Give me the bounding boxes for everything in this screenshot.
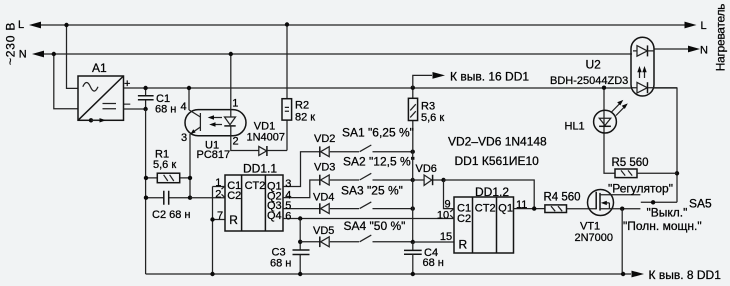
svg-text:68 н: 68 н — [270, 258, 291, 270]
svg-text:1: 1 — [215, 177, 221, 189]
svg-text:SA3 "25 %": SA3 "25 %" — [341, 184, 403, 198]
svg-text:VD1: VD1 — [254, 121, 275, 133]
svg-text:N: N — [700, 45, 708, 57]
svg-text:3: 3 — [285, 178, 291, 190]
svg-text:C2 68 н: C2 68 н — [152, 209, 190, 221]
svg-text:N: N — [19, 48, 27, 60]
svg-text:Q4: Q4 — [267, 210, 282, 222]
svg-text:VD3: VD3 — [314, 162, 335, 174]
svg-text:DD1 К561ИЕ10: DD1 К561ИЕ10 — [455, 154, 540, 168]
svg-text:7: 7 — [217, 210, 223, 222]
svg-text:+: + — [124, 78, 130, 90]
svg-text:6: 6 — [285, 210, 291, 222]
svg-text:1N4007: 1N4007 — [247, 132, 286, 144]
svg-text:82 к: 82 к — [295, 112, 315, 124]
svg-text:68 н: 68 н — [155, 104, 176, 116]
svg-text:R5 560: R5 560 — [612, 157, 649, 169]
svg-text:–: – — [124, 98, 131, 110]
svg-text:3: 3 — [181, 132, 187, 144]
svg-text:9: 9 — [445, 198, 451, 210]
svg-text:SA1 "6,25 %": SA1 "6,25 %" — [342, 126, 414, 140]
svg-text:11: 11 — [516, 199, 527, 211]
svg-text:2: 2 — [233, 136, 239, 148]
svg-text:VD4: VD4 — [313, 192, 334, 204]
svg-text:5,6 к: 5,6 к — [153, 159, 176, 171]
svg-text:К выв. 16 DD1: К выв. 16 DD1 — [450, 69, 529, 83]
svg-text:R: R — [229, 213, 238, 227]
svg-text:PC817: PC817 — [197, 149, 231, 161]
svg-text:DD1.2: DD1.2 — [475, 185, 509, 199]
svg-text:4: 4 — [181, 101, 187, 113]
svg-text:CT2: CT2 — [245, 180, 266, 192]
svg-text:К выв. 8 DD1: К выв. 8 DD1 — [649, 268, 722, 282]
svg-text:U2: U2 — [586, 58, 602, 72]
svg-text:SA2 "12,5 %": SA2 "12,5 %" — [343, 155, 415, 169]
svg-text:Нагреватель: Нагреватель — [714, 4, 728, 71]
svg-text:SA5: SA5 — [689, 197, 712, 211]
svg-text:"Полн. мощн.": "Полн. мощн." — [623, 219, 702, 233]
svg-text:2N7000: 2N7000 — [575, 232, 614, 244]
svg-text:CT2: CT2 — [475, 203, 496, 215]
svg-text:R4 560: R4 560 — [544, 192, 581, 204]
svg-text:15: 15 — [440, 231, 452, 243]
svg-text:1: 1 — [232, 97, 238, 109]
svg-text:SA4 "50 %": SA4 "50 %" — [344, 219, 406, 233]
svg-text:HL1: HL1 — [565, 121, 585, 133]
svg-text:L: L — [701, 20, 707, 32]
svg-text:68 н: 68 н — [423, 257, 444, 269]
svg-text:2: 2 — [215, 188, 221, 200]
svg-text:VD6: VD6 — [416, 163, 437, 175]
svg-text:VD2: VD2 — [314, 133, 335, 145]
svg-text:VD2–VD6 1N4148: VD2–VD6 1N4148 — [448, 134, 547, 148]
svg-text:L: L — [18, 19, 24, 31]
svg-text:A1: A1 — [92, 61, 107, 75]
svg-text:5,6 к: 5,6 к — [421, 112, 444, 124]
svg-text:DD1.1: DD1.1 — [243, 162, 277, 176]
svg-text:R2: R2 — [295, 100, 309, 112]
svg-text:VT1: VT1 — [580, 221, 600, 233]
svg-text:R3: R3 — [421, 101, 435, 113]
svg-text:10: 10 — [437, 210, 449, 222]
svg-text:R: R — [459, 238, 468, 252]
svg-text:~230 В: ~230 В — [4, 22, 18, 65]
svg-text:C2: C2 — [457, 213, 471, 225]
svg-text:BDH-25044ZD3: BDH-25044ZD3 — [550, 75, 628, 87]
svg-text:"Регулятор": "Регулятор" — [608, 182, 673, 196]
svg-text:C2: C2 — [227, 190, 241, 202]
svg-text:VD5: VD5 — [313, 225, 334, 237]
svg-text:Q1: Q1 — [498, 203, 513, 215]
svg-text:"Выкл.": "Выкл." — [647, 206, 688, 220]
